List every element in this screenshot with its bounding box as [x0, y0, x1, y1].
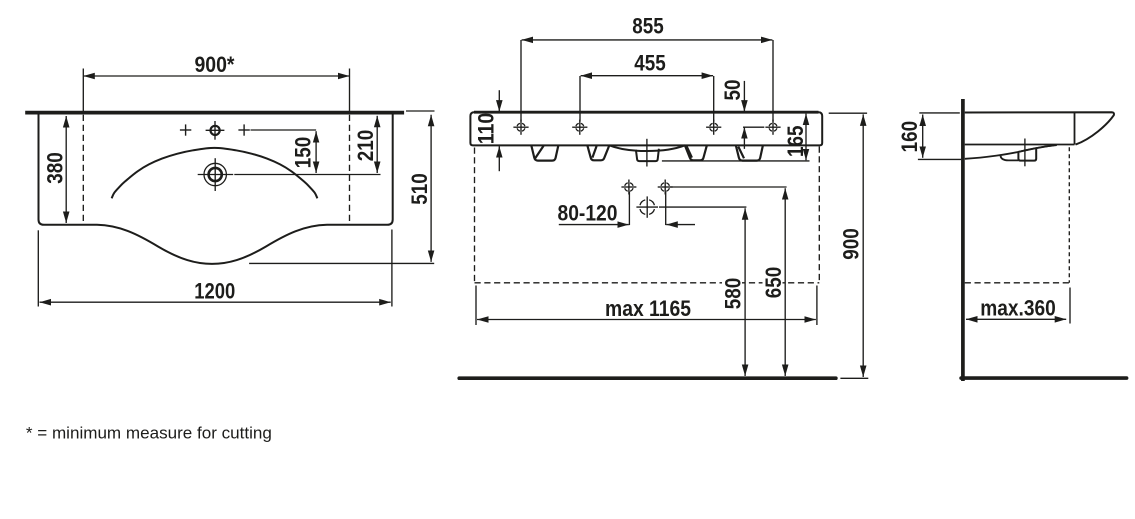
svg-text:900: 900: [839, 228, 864, 260]
svg-text:50: 50: [720, 80, 745, 101]
svg-text:165: 165: [783, 126, 808, 158]
svg-text:150: 150: [291, 137, 316, 169]
svg-text:380: 380: [43, 152, 68, 184]
svg-text:* = minimum measure for cuttin: * = minimum measure for cutting: [26, 424, 272, 442]
svg-text:max.360: max.360: [980, 296, 1056, 321]
svg-text:80-120: 80-120: [558, 200, 618, 225]
svg-text:900*: 900*: [195, 52, 235, 77]
svg-text:1200: 1200: [194, 279, 235, 304]
svg-text:210: 210: [353, 130, 378, 162]
svg-text:510: 510: [407, 173, 432, 205]
svg-text:max 1165: max 1165: [605, 296, 691, 321]
svg-text:580: 580: [721, 278, 746, 310]
svg-text:855: 855: [632, 14, 664, 39]
svg-text:160: 160: [897, 121, 922, 153]
svg-text:650: 650: [761, 267, 786, 299]
svg-text:455: 455: [634, 51, 666, 76]
svg-text:110: 110: [474, 113, 499, 145]
